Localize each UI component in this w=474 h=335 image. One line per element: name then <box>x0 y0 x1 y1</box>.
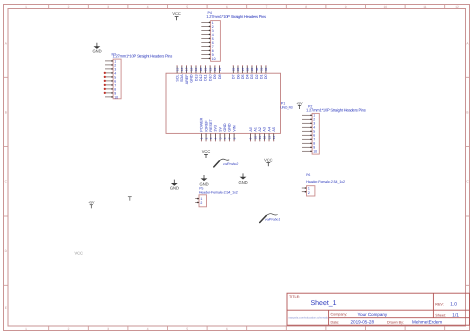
svg-text:23: 23 <box>213 67 217 71</box>
svg-text:4: 4 <box>147 327 149 331</box>
svg-text:Drawn By:: Drawn By: <box>387 320 404 324</box>
svg-text:27: 27 <box>241 67 245 71</box>
svg-text:3: 3 <box>107 327 109 331</box>
svg-text:Sheet_1: Sheet_1 <box>311 299 337 307</box>
svg-text:GND: GND <box>170 185 179 190</box>
svg-text:D5: D5 <box>241 74 245 79</box>
svg-text:28: 28 <box>245 67 249 71</box>
svg-text:E: E <box>5 306 7 310</box>
svg-text:SDA: SDA <box>180 74 184 82</box>
svg-text:D: D <box>5 249 8 253</box>
svg-text:1/1: 1/1 <box>452 312 459 318</box>
svg-text:VCC: VCC <box>172 11 181 16</box>
svg-text:easyeda.com/education.schemati: easyeda.com/education.schematic <box>289 317 329 320</box>
svg-text:A1: A1 <box>253 127 257 132</box>
svg-text:1.27mm1*10P Straight Headers: 1.27mm1*10P Straight Headers Pins <box>113 53 173 58</box>
svg-text:Your Company: Your Company <box>358 312 388 317</box>
svg-text:GND: GND <box>228 123 232 132</box>
svg-text:+5V: +5V <box>296 101 303 105</box>
svg-text:D12: D12 <box>199 74 203 81</box>
svg-text:29: 29 <box>250 67 254 71</box>
svg-text:12: 12 <box>455 5 459 9</box>
svg-text:2: 2 <box>68 5 70 9</box>
svg-text:10: 10 <box>212 57 216 61</box>
svg-text:D7: D7 <box>232 74 236 79</box>
svg-text:3: 3 <box>107 5 109 9</box>
svg-text:16: 16 <box>180 67 184 71</box>
svg-text:VIN: VIN <box>232 125 236 131</box>
svg-text:11: 11 <box>423 5 427 9</box>
svg-text:volProbe1: volProbe1 <box>265 217 280 221</box>
svg-text:30: 30 <box>255 67 259 71</box>
svg-text:VCC: VCC <box>264 157 273 162</box>
svg-text:B: B <box>466 111 468 115</box>
svg-text:GND: GND <box>190 74 194 83</box>
svg-text:13: 13 <box>267 136 271 140</box>
svg-text:14: 14 <box>272 136 276 140</box>
svg-text:31: 31 <box>259 67 263 71</box>
svg-text:D6: D6 <box>236 74 240 79</box>
svg-text:A0: A0 <box>249 127 253 132</box>
svg-text:6: 6 <box>226 5 228 9</box>
svg-text:6: 6 <box>226 327 228 331</box>
svg-text:A5: A5 <box>272 127 276 132</box>
svg-text:UNO_R3: UNO_R3 <box>280 105 292 109</box>
svg-text:C: C <box>5 180 8 184</box>
svg-text:GND: GND <box>92 48 101 53</box>
svg-text:D10: D10 <box>208 74 212 81</box>
svg-text:25: 25 <box>232 67 236 71</box>
svg-text:D9: D9 <box>213 74 217 79</box>
svg-text:A: A <box>5 42 8 46</box>
svg-text:D8: D8 <box>218 74 222 79</box>
svg-text:Sheet:: Sheet: <box>435 313 446 317</box>
svg-text:9: 9 <box>345 5 347 9</box>
svg-text:5: 5 <box>186 5 188 9</box>
svg-text:AREF: AREF <box>185 74 189 85</box>
svg-text:12: 12 <box>263 136 267 140</box>
svg-text:VCC: VCC <box>202 149 211 154</box>
svg-text:volProbe2: volProbe2 <box>223 162 238 166</box>
svg-text:2: 2 <box>68 327 70 331</box>
svg-text:D0: D0 <box>264 74 268 79</box>
svg-text:D13: D13 <box>194 74 198 81</box>
svg-text:10: 10 <box>384 5 388 9</box>
svg-text:21: 21 <box>204 67 208 71</box>
svg-text:19: 19 <box>194 67 198 71</box>
svg-text:Header-Female-2.54_1x2: Header-Female-2.54_1x2 <box>199 191 238 195</box>
svg-text:15: 15 <box>175 67 179 71</box>
svg-text:10: 10 <box>253 136 257 140</box>
svg-text:11: 11 <box>258 136 262 139</box>
svg-text:A3: A3 <box>263 127 267 132</box>
svg-text:MehmetErdem: MehmetErdem <box>412 319 442 324</box>
svg-text:1.0: 1.0 <box>450 302 457 308</box>
svg-text:32: 32 <box>264 67 268 71</box>
svg-text:C: C <box>466 180 469 184</box>
svg-text:A4: A4 <box>267 127 271 132</box>
svg-text:IOREF: IOREF <box>204 120 208 132</box>
svg-text:5: 5 <box>186 327 188 331</box>
svg-text:18: 18 <box>189 67 193 71</box>
svg-text:Company:: Company: <box>331 313 348 317</box>
svg-text:2019-05-28: 2019-05-28 <box>351 319 375 324</box>
svg-text:20: 20 <box>199 67 203 71</box>
svg-text:D11: D11 <box>204 74 208 81</box>
svg-text:4: 4 <box>147 5 149 9</box>
svg-text:22: 22 <box>208 67 212 71</box>
svg-text:D3: D3 <box>250 74 254 79</box>
svg-text:8: 8 <box>305 5 307 9</box>
svg-text:+5V: +5V <box>88 201 95 205</box>
svg-text:24: 24 <box>218 67 222 71</box>
svg-text:2: 2 <box>308 191 310 195</box>
svg-text:5V: 5V <box>218 127 222 132</box>
svg-text:D1: D1 <box>260 74 264 79</box>
svg-text:POWER: POWER <box>200 117 204 131</box>
svg-text:2: 2 <box>200 201 202 205</box>
svg-text:RESET: RESET <box>209 119 213 132</box>
svg-text:B: B <box>5 111 7 115</box>
svg-text:VCC: VCC <box>75 250 84 255</box>
svg-text:D2: D2 <box>255 74 259 79</box>
svg-text:SCL: SCL <box>175 74 179 81</box>
svg-text:17: 17 <box>185 67 189 71</box>
svg-text:P6: P6 <box>306 173 310 177</box>
svg-text:1.27mm1*10P Straight Headers: 1.27mm1*10P Straight Headers Pins <box>306 108 366 113</box>
svg-text:GND: GND <box>223 123 227 132</box>
svg-text:A: A <box>466 42 469 46</box>
svg-text:10: 10 <box>114 95 118 99</box>
svg-text:7: 7 <box>266 5 268 9</box>
svg-text:Header-Female-2.54_1x2: Header-Female-2.54_1x2 <box>306 180 345 184</box>
svg-text:Date:: Date: <box>331 320 340 324</box>
svg-text:1.27mm1*10P Straight Headers: 1.27mm1*10P Straight Headers Pins <box>206 14 266 19</box>
svg-text:10: 10 <box>313 150 317 154</box>
svg-text:3V3: 3V3 <box>214 125 218 132</box>
svg-text:REV:: REV: <box>435 303 443 307</box>
svg-text:26: 26 <box>236 67 240 71</box>
svg-text:A2: A2 <box>258 127 262 132</box>
svg-text:1: 1 <box>25 327 27 331</box>
svg-text:GND: GND <box>239 180 248 185</box>
svg-text:TITLE:: TITLE: <box>289 295 300 299</box>
svg-text:D4: D4 <box>246 74 250 79</box>
svg-text:1: 1 <box>25 5 27 9</box>
